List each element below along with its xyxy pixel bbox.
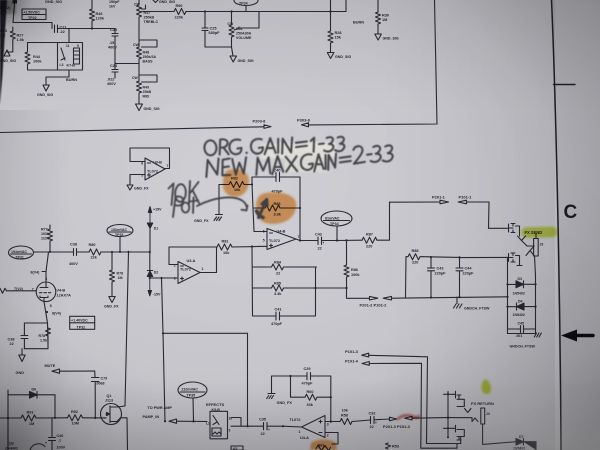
connector arrow P101-2 bbox=[360, 296, 392, 307]
capacitor C35 bbox=[259, 418, 283, 437]
dark paper edge left strip bbox=[0, 0, 7, 105]
green highlight blob FX RETURN bbox=[481, 379, 491, 394]
junction rail drop at relay bbox=[246, 425, 248, 427]
wire rail right drop bbox=[247, 333, 249, 426]
handwritten line NEW MAX GAIN = 2-33 bbox=[205, 145, 393, 177]
schematic border line right bbox=[552, 0, 562, 450]
wire mute to C79 bbox=[60, 371, 96, 377]
relay K5-B bbox=[206, 408, 232, 439]
wire bottom rail bbox=[163, 332, 248, 334]
ground GND_FX under U3-B bbox=[127, 185, 149, 191]
ground GND_FX effects bbox=[267, 376, 293, 405]
resistor R88 bbox=[406, 249, 423, 265]
wire cathode bottom join bbox=[24, 344, 48, 349]
junction pin3 bbox=[149, 277, 151, 279]
wire R88 right bbox=[423, 256, 460, 259]
diode D4 bbox=[508, 299, 536, 317]
testpoint box TP22 bbox=[22, 9, 46, 20]
junction C79 gate bbox=[94, 417, 96, 419]
junction bbox=[91, 27, 93, 29]
junction left rail mid bbox=[506, 296, 508, 298]
wire C25 R51 bottom rail bbox=[205, 46, 232, 48]
testpoint box TP32 bbox=[70, 316, 95, 329]
green highlight FX SEND bbox=[521, 227, 557, 238]
jack switch FX send lower bbox=[460, 246, 535, 266]
wire jack sleeve down bbox=[535, 256, 536, 276]
junction TP35 stem bbox=[192, 420, 194, 422]
wire P303-8 to vertical bbox=[309, 0, 438, 125]
junction bbox=[329, 10, 331, 12]
wire relay pin10 to C35 row bbox=[231, 418, 241, 427]
junction R91 node bbox=[7, 417, 9, 419]
junction fb rail r60 bbox=[330, 396, 332, 398]
connector arrows P101-3 pair bbox=[345, 349, 369, 366]
capacitor C23 bbox=[108, 28, 118, 63]
wire P101-4 lower to jack return bbox=[369, 363, 457, 448]
wire U3-B pin5 to ground bbox=[130, 175, 145, 185]
opamp U3-B bbox=[141, 158, 168, 180]
junction C43 bottom bbox=[430, 296, 432, 298]
wire pamp to relay bbox=[177, 420, 208, 422]
contact caret return bbox=[472, 418, 478, 422]
label 8(V4) plate bbox=[31, 271, 47, 275]
resistor R92 bbox=[68, 410, 83, 426]
junction cathode bbox=[46, 311, 48, 313]
ladder bus left bbox=[251, 247, 254, 317]
resistor R82 bbox=[219, 177, 252, 193]
ground GND_SIG under R51 bbox=[230, 47, 254, 63]
resistor R79 cathode bbox=[39, 328, 51, 344]
resistor R60 bbox=[291, 376, 332, 407]
pale highlight strip behind handwriting line2 bbox=[285, 152, 327, 172]
wire plate up bbox=[46, 252, 49, 281]
long wire to P203-8 bbox=[0, 127, 264, 133]
junction pin5 node bbox=[251, 245, 253, 247]
junction R82 node bbox=[251, 183, 253, 185]
connector arrow P201-1 bbox=[432, 195, 449, 204]
resistor R83 bbox=[254, 202, 300, 217]
connector arrow P303-8 bbox=[297, 118, 311, 127]
resistor R28 bbox=[328, 30, 342, 44]
ladder rail right bbox=[315, 267, 317, 316]
capacitor C25 bbox=[202, 12, 220, 48]
wire top bus to R50 bbox=[142, 11, 174, 13]
junction pin3 drop bbox=[160, 277, 162, 279]
resistor R80 bbox=[89, 243, 102, 260]
wire pin2 stub bbox=[325, 433, 338, 445]
wire pin6 bbox=[252, 185, 267, 232]
ground GND_FX under R78 bbox=[104, 284, 119, 309]
capacitor C45 bbox=[508, 322, 536, 339]
junction R78 bbox=[111, 251, 113, 253]
wire effects row bbox=[231, 425, 264, 427]
wire R88 left drop bbox=[405, 257, 408, 298]
wire TP35 stem bbox=[192, 398, 195, 421]
orange highlight R61 bbox=[310, 440, 337, 450]
wire left edge drop bbox=[7, 418, 9, 450]
wire Q1 drain up bbox=[117, 406, 125, 407]
schematic ink layer bbox=[0, 0, 346, 111]
ground GND_SIG under R28 bbox=[327, 44, 351, 60]
ground GND under cathode bbox=[16, 349, 26, 375]
wire D6 right drop bbox=[54, 395, 56, 418]
wire R58 to C32 bbox=[352, 420, 371, 422]
junction U4-A output node bbox=[282, 425, 284, 427]
junction ladder R85 bbox=[314, 287, 316, 289]
wire vertical to R28 bbox=[330, 0, 332, 30]
tube V4-B bbox=[32, 277, 71, 308]
wire P101-3 upper to jack return bbox=[369, 355, 461, 443]
diode D6 bbox=[8, 388, 55, 399]
wire left rail diodes bbox=[507, 257, 509, 333]
supply arrow -15V bbox=[148, 277, 161, 297]
junction C44 top bbox=[458, 256, 460, 258]
connector arrow P201-3 bbox=[390, 417, 397, 421]
junction diode column bbox=[149, 251, 151, 253]
wire bottom rail return bbox=[457, 437, 461, 448]
capacitor C38 cathode bbox=[8, 333, 28, 349]
wire U3-B feedback loop bbox=[130, 148, 170, 169]
ground GND_SIG top center bbox=[153, 0, 175, 4]
junction TP33 stem bbox=[119, 251, 121, 253]
resistor R58 bbox=[340, 409, 352, 425]
junction C44 bottom bbox=[458, 296, 460, 298]
ink layer 4: right jacks and bottom band bbox=[0, 224, 543, 450]
wire output row to R87 bbox=[337, 239, 362, 241]
resistor grid stopper left edge bbox=[0, 288, 7, 293]
resistor R44 with loop bbox=[25, 43, 58, 71]
junction right rail d4 bbox=[534, 306, 536, 308]
capacitor C46 bbox=[45, 418, 66, 450]
ground GND_SIG under MID pot bbox=[136, 104, 160, 111]
junction rail output bbox=[299, 239, 301, 241]
handwritten pointer curve bbox=[197, 197, 248, 210]
junction R86 bottom bbox=[345, 287, 347, 289]
wire fb rail to pin3 bbox=[330, 376, 332, 422]
capacitor C38 coupling bbox=[69, 243, 89, 267]
pointer arrow right edge bbox=[561, 330, 593, 342]
jack J3 FX RETURN bbox=[481, 408, 490, 424]
junction rail left bbox=[162, 332, 164, 334]
wire bbox=[58, 28, 116, 30]
wire R50 to right bbox=[186, 11, 346, 13]
capacitor C21 bbox=[55, 25, 67, 34]
ground GND_SIG under relay bbox=[37, 70, 69, 97]
resistor R86 bbox=[344, 240, 360, 288]
wire TP34 stem bbox=[245, 6, 247, 12]
wire R87 up to P201-1 bbox=[377, 202, 390, 240]
connector arrow P101-1 bbox=[458, 195, 472, 204]
wire P201-1 bbox=[390, 201, 441, 203]
wire U3-A pin3 bbox=[150, 277, 178, 279]
ground GND_SIG under R27 bbox=[0, 43, 16, 63]
diode D7 bbox=[513, 435, 536, 450]
ground GND_SIG under R30 bbox=[375, 25, 399, 41]
wire U3-A feedback box bbox=[169, 247, 217, 273]
resistor R61 fragment bbox=[316, 444, 331, 450]
ground hatch GNDCH_FTSW right bbox=[510, 333, 542, 349]
wire R91 to R92 bbox=[38, 417, 68, 419]
transistor Q2 fragment bbox=[5, 442, 45, 450]
capacitor C41 bbox=[253, 308, 316, 327]
overall vignette top layer bbox=[0, 0, 1, 1]
testpoint oval TP34 top bbox=[234, 0, 258, 6]
junction R51 top bbox=[230, 10, 232, 12]
wire plate row bbox=[34, 251, 72, 253]
ink layer 3: middle band (tube, opamps, feedback networks) bbox=[0, 148, 508, 426]
resistor R46 bbox=[90, 0, 105, 29]
connector arrow PAMP_IN bbox=[169, 419, 177, 423]
junction D6 drop bbox=[54, 417, 56, 419]
junction return bus bbox=[447, 417, 449, 419]
jack switch FX send upper bbox=[489, 224, 526, 241]
wire U4-B output row bbox=[296, 239, 318, 241]
wire P101-1 to jack bbox=[467, 202, 490, 228]
potentiometer R48 BASS bbox=[133, 40, 157, 81]
wire bbox=[58, 29, 70, 43]
handwritten line ORG. GAIN = 1-33 bbox=[204, 136, 344, 156]
handwritten Pot bbox=[173, 196, 198, 217]
wire TP34 stem bbox=[336, 226, 338, 241]
capacitor C24 bbox=[107, 63, 118, 86]
relay K7-B bbox=[58, 43, 83, 71]
orange highlight R83 bbox=[256, 192, 296, 224]
testpoint oval TP35 bbox=[178, 382, 207, 398]
junction Q1 feed bbox=[127, 251, 129, 253]
junction right rail d3 bbox=[534, 283, 536, 285]
wire to diode column bbox=[101, 251, 150, 253]
capacitor C29 bbox=[272, 367, 331, 385]
wire return jack bottom bbox=[483, 424, 515, 444]
wire cathode down bbox=[44, 302, 48, 345]
diode D2 bbox=[147, 252, 158, 277]
resistor R50 bbox=[174, 4, 186, 20]
resistor R53 fragment bbox=[386, 443, 399, 449]
resistor R27 bbox=[10, 27, 24, 43]
testpoint oval TP34 bbox=[321, 211, 352, 226]
label C7 150pF 1kV bbox=[109, 0, 120, 9]
node square top-left bbox=[13, 0, 18, 4]
highlighter marks bbox=[223, 169, 558, 450]
connector arrow P201-2 bbox=[370, 296, 378, 300]
wire grid left bbox=[7, 290, 37, 292]
wire corner up bbox=[345, 0, 347, 12]
junction C25 bbox=[204, 10, 206, 12]
junction R86 top bbox=[345, 239, 347, 241]
ground GND_FX under R82 bbox=[194, 185, 223, 224]
handwritten arrow scribble at R83 bbox=[257, 200, 268, 218]
resistor R84 bbox=[253, 261, 317, 276]
wire C40/R83 right rail bbox=[299, 177, 301, 241]
testpoint oval TP31 bbox=[9, 246, 34, 259]
connector arrow P203-8 bbox=[253, 119, 272, 129]
capacitor C40 bbox=[252, 169, 300, 194]
junction pin3 node bbox=[330, 421, 332, 423]
potentiometer R51 VOLUME bbox=[228, 12, 252, 48]
opamp U4-A bbox=[290, 416, 329, 441]
transistor Q1 J113 bbox=[101, 394, 128, 450]
jack J3 FX SEND bbox=[522, 234, 544, 257]
relay K5 lower fragment bbox=[231, 446, 243, 450]
junction left rail d4 bbox=[506, 305, 508, 307]
wire volume wiper bbox=[239, 12, 259, 29]
opamp U4-B bbox=[263, 229, 300, 250]
junction R77 bbox=[49, 251, 51, 253]
connector arrow P101-3b bbox=[383, 416, 412, 429]
wire R86 to P201-2 bbox=[347, 288, 370, 298]
wire R92 to Q1 gate bbox=[83, 417, 101, 419]
resistor R85 bbox=[253, 282, 347, 297]
wire pin3 drop to bottom rail bbox=[162, 278, 166, 421]
wire R81 to U4-B pin5 bbox=[232, 245, 267, 248]
testpoint oval TP33 bbox=[107, 225, 133, 238]
wire cathode branch left bbox=[24, 323, 47, 333]
darker area right of border bbox=[552, 0, 600, 450]
ground GNDCH_FTSW left bbox=[454, 297, 490, 311]
resistor R87 bbox=[362, 232, 377, 248]
red pen mark P201-3 bbox=[398, 415, 419, 418]
resistor R81 bbox=[217, 240, 232, 256]
resistor R78 shunt bbox=[110, 252, 124, 284]
capacitor C43 bbox=[428, 257, 447, 298]
border zone tick bbox=[554, 84, 576, 86]
connector arrow MUTE bbox=[52, 369, 60, 373]
resistor R91 bbox=[0, 411, 38, 427]
jack switch FX return lower bbox=[444, 425, 465, 440]
wire P101-2 rail right bbox=[392, 297, 508, 298]
junction pin3 drop bottom bbox=[164, 420, 166, 422]
wire to return jack bbox=[412, 417, 472, 420]
diode D1 bbox=[147, 223, 158, 252]
orange highlight R82 bbox=[223, 169, 249, 197]
junction left rail bbox=[506, 283, 508, 285]
junction C43 top bbox=[430, 256, 432, 258]
resistor R77 bbox=[41, 225, 53, 252]
wire TP33 stem bbox=[119, 237, 121, 252]
junction C29 left bbox=[289, 375, 291, 377]
wire C23/C24 to pot chain bbox=[115, 63, 139, 65]
wire long drop to Q1 drain bbox=[125, 252, 129, 406]
wire right rail diodes bbox=[508, 276, 536, 334]
potentiometer R49 MID bbox=[132, 75, 157, 104]
resistor R30 bbox=[376, 0, 389, 25]
jack switch FX return upper bbox=[444, 391, 472, 437]
handwritten 10K bbox=[169, 181, 200, 205]
opamp U3-A bbox=[174, 259, 204, 284]
junction TP34 bbox=[336, 239, 338, 241]
wire output to C35 bbox=[283, 425, 302, 428]
capacitor C44 bbox=[456, 258, 474, 298]
wire D6 column left bbox=[7, 390, 9, 418]
handwriting layer bbox=[169, 136, 394, 218]
pale highlight strip behind handwriting line1 bbox=[260, 142, 336, 172]
supply arrow +15V bbox=[148, 207, 162, 230]
wire bbox=[13, 4, 52, 29]
potentiometer R47 TREBLE bbox=[134, 0, 158, 44]
junction rail R83 bbox=[299, 207, 301, 209]
capacitor C32 bbox=[369, 412, 390, 430]
wire pin3 row bbox=[325, 421, 340, 423]
capacitor C42 bbox=[315, 233, 337, 251]
capacitor C79 bbox=[92, 377, 108, 418]
diode D3 bbox=[508, 277, 536, 295]
